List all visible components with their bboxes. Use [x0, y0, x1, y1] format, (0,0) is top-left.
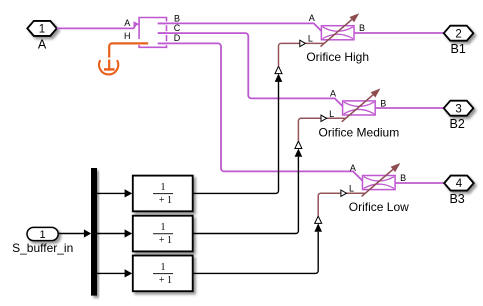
svg-text:2: 2 [455, 28, 461, 40]
svg-text:B: B [380, 98, 386, 108]
wire TF1 to Orifice High L (black signal part) [193, 66, 283, 193]
svg-text:1: 1 [39, 24, 45, 36]
demux bar [91, 168, 97, 296]
wire demux to TF2 [97, 229, 132, 237]
svg-text:B2: B2 [450, 117, 465, 131]
svg-text:A: A [124, 18, 130, 28]
wire TF3 to Orifice Low L (black signal part) [193, 216, 322, 273]
svg-text:L: L [308, 34, 313, 44]
wire TF1 to Orifice High L (physical signal part) [279, 40, 325, 66]
wire S_buffer_in to demux [58, 229, 91, 237]
svg-text:1: 1 [161, 222, 166, 233]
svg-text:D: D [174, 33, 181, 43]
svg-text:B: B [174, 14, 180, 24]
Orifice Medium block [342, 88, 381, 121]
wire demux to TF3 [97, 269, 132, 277]
svg-text:B3: B3 [449, 192, 464, 206]
svg-text:+ 1: + 1 [159, 275, 172, 286]
svg-text:Orifice Low: Orifice Low [349, 200, 409, 214]
outport B2 (port 3 hexagon) [444, 101, 474, 116]
Orifice Low block [362, 163, 401, 196]
wire valve H to thermal reference (orange) [109, 43, 148, 57]
wire TF2 to Orifice Medium L (physical signal part) [298, 115, 345, 141]
svg-text:+ 1: + 1 [159, 195, 172, 206]
svg-text:1: 1 [161, 262, 166, 273]
wire port A to valve block [57, 21, 140, 28]
wire Orifice High B to outport B1 [354, 32, 444, 34]
wire valve B to Orifice High A [158, 23, 322, 31]
inport A (port 1 hexagon) [27, 21, 57, 36]
wire TF3 to Orifice Low L (physical signal part) [318, 190, 366, 216]
svg-text:A: A [350, 163, 356, 173]
outport B3 (port 4 hexagon) [444, 176, 474, 191]
svg-text:+ 1: + 1 [159, 235, 172, 246]
svg-text:B: B [400, 173, 406, 183]
wire valve D to Orifice Low A [158, 43, 363, 180]
svg-text:A: A [330, 88, 336, 98]
wire demux to TF1 [97, 189, 132, 197]
transfer function TF1 [133, 176, 193, 212]
valve block (4-port) [139, 18, 166, 48]
svg-text:L: L [329, 109, 334, 119]
svg-text:A: A [38, 37, 47, 51]
inport S_buffer_in (port 1 stadium) [27, 227, 58, 240]
wire TF2 to Orifice Medium L (black signal part) [193, 141, 303, 233]
svg-text:B1: B1 [451, 42, 466, 56]
thermal reference ground symbol [99, 60, 118, 75]
svg-text:A: A [309, 13, 315, 23]
svg-text:C: C [174, 23, 181, 33]
transfer function TF3 [133, 256, 193, 292]
svg-text:L: L [349, 183, 354, 193]
svg-text:B: B [359, 23, 365, 33]
svg-text:H: H [124, 31, 131, 41]
svg-text:3: 3 [455, 103, 461, 115]
outport B1 (port 2 hexagon) [444, 26, 474, 41]
Orifice High block [321, 13, 360, 46]
svg-text:4: 4 [456, 178, 463, 190]
svg-text:Orifice High: Orifice High [306, 50, 369, 64]
wire valve C to Orifice Medium A [158, 33, 343, 106]
svg-text:1: 1 [40, 229, 46, 241]
svg-text:1: 1 [161, 182, 166, 193]
wire Orifice Medium B to outport B2 [375, 107, 444, 109]
svg-text:S_buffer_in: S_buffer_in [12, 241, 73, 255]
wire Orifice Low B to outport B3 [395, 182, 444, 184]
transfer function TF2 [133, 216, 193, 252]
svg-text:Orifice Medium: Orifice Medium [319, 125, 400, 139]
